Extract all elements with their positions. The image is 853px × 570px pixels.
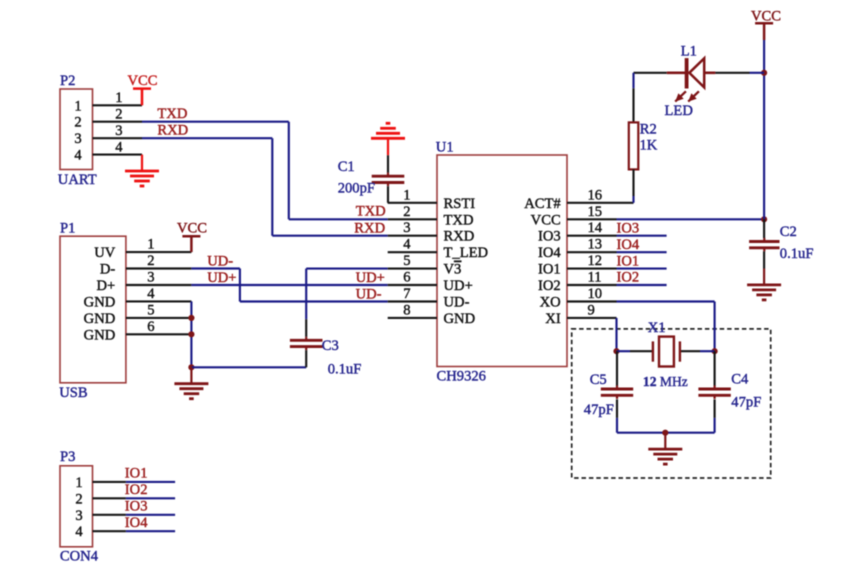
svg-text:2: 2: [74, 115, 81, 131]
svg-text:3: 3: [403, 220, 410, 236]
svg-text:4: 4: [74, 148, 82, 164]
svg-text:R2: R2: [640, 121, 657, 137]
svg-text:IO2: IO2: [538, 278, 561, 294]
svg-text:UART: UART: [58, 172, 97, 188]
svg-text:1: 1: [115, 90, 122, 106]
svg-text:6: 6: [403, 270, 410, 286]
svg-text:V3: V3: [444, 262, 462, 278]
svg-text:C2: C2: [780, 224, 797, 240]
svg-text:UV: UV: [94, 245, 116, 261]
svg-text:LED: LED: [665, 103, 693, 119]
svg-text:TXD: TXD: [157, 106, 187, 122]
svg-text:C1: C1: [338, 159, 355, 175]
svg-text:2: 2: [115, 107, 122, 123]
svg-text:GND: GND: [84, 327, 116, 343]
svg-text:P1: P1: [60, 220, 75, 236]
svg-text:IO4: IO4: [538, 245, 561, 261]
svg-text:CH9326: CH9326: [437, 369, 486, 385]
svg-text:0.1uF: 0.1uF: [780, 246, 814, 262]
svg-text:3: 3: [74, 131, 81, 147]
svg-text:X1: X1: [648, 320, 666, 336]
svg-text:XI: XI: [545, 311, 561, 327]
svg-text:12 MHz: 12 MHz: [643, 374, 688, 389]
svg-text:4: 4: [115, 139, 123, 155]
svg-text:13: 13: [588, 237, 603, 253]
svg-text:11: 11: [588, 270, 602, 286]
svg-text:IO2: IO2: [617, 270, 640, 286]
svg-text:3: 3: [75, 508, 82, 524]
svg-text:14: 14: [588, 220, 603, 236]
svg-text:47pF: 47pF: [584, 402, 614, 418]
svg-text:RXD: RXD: [354, 220, 385, 236]
svg-text:8: 8: [403, 302, 410, 318]
svg-text:UD-: UD-: [444, 295, 470, 311]
svg-text:2: 2: [147, 253, 154, 269]
svg-text:VCC: VCC: [531, 212, 561, 228]
svg-text:D+: D+: [97, 278, 116, 294]
svg-text:UD-: UD-: [207, 253, 233, 269]
svg-text:TXD: TXD: [444, 212, 474, 228]
svg-text:USB: USB: [59, 385, 88, 401]
svg-text:IO4: IO4: [617, 237, 640, 253]
svg-text:IO4: IO4: [125, 515, 148, 531]
svg-text:1: 1: [147, 237, 154, 253]
svg-text:VCC: VCC: [128, 73, 158, 89]
svg-text:T_LED: T_LED: [444, 245, 489, 261]
svg-text:5: 5: [147, 302, 154, 318]
svg-text:1: 1: [74, 98, 81, 114]
svg-text:UD+: UD+: [444, 278, 473, 294]
svg-text:XO: XO: [540, 295, 561, 311]
svg-text:D-: D-: [100, 262, 116, 278]
svg-text:IO1: IO1: [538, 262, 561, 278]
svg-text:UD+: UD+: [356, 270, 385, 286]
svg-text:RSTI: RSTI: [444, 196, 476, 212]
svg-text:GND: GND: [84, 311, 116, 327]
svg-text:IO3: IO3: [125, 499, 148, 515]
svg-text:1: 1: [403, 187, 410, 203]
svg-text:IO1: IO1: [125, 466, 148, 482]
svg-text:4: 4: [147, 286, 155, 302]
svg-text:47pF: 47pF: [731, 394, 761, 410]
svg-text:P2: P2: [60, 73, 75, 89]
svg-text:C5: C5: [590, 372, 607, 388]
svg-text:L1: L1: [681, 43, 697, 59]
svg-text:CON4: CON4: [60, 548, 99, 564]
svg-text:3: 3: [115, 123, 122, 139]
svg-text:7: 7: [403, 286, 410, 302]
svg-text:6: 6: [147, 319, 154, 335]
svg-text:12: 12: [588, 253, 603, 269]
svg-text:C4: C4: [731, 372, 749, 388]
svg-text:10: 10: [588, 286, 603, 302]
svg-text:1: 1: [75, 475, 82, 491]
svg-text:VCC: VCC: [751, 8, 781, 24]
svg-text:UD-: UD-: [356, 286, 382, 302]
svg-text:IO1: IO1: [617, 253, 640, 269]
svg-text:UD+: UD+: [207, 270, 236, 286]
svg-text:P3: P3: [60, 449, 75, 465]
svg-text:2: 2: [75, 491, 82, 507]
svg-text:GND: GND: [84, 294, 116, 310]
svg-text:U1: U1: [436, 139, 454, 155]
svg-text:RXD: RXD: [157, 123, 188, 139]
svg-text:GND: GND: [444, 311, 476, 327]
svg-text:16: 16: [588, 187, 603, 203]
svg-text:5: 5: [403, 253, 410, 269]
svg-text:C3: C3: [322, 338, 339, 354]
svg-text:4: 4: [403, 237, 411, 253]
svg-text:2: 2: [403, 204, 410, 220]
svg-text:IO3: IO3: [538, 229, 561, 245]
svg-text:ACT#: ACT#: [524, 196, 561, 212]
svg-text:3: 3: [147, 270, 154, 286]
svg-text:IO2: IO2: [125, 482, 148, 498]
svg-text:9: 9: [588, 302, 595, 318]
svg-text:200pF: 200pF: [338, 181, 375, 197]
svg-text:TXD: TXD: [356, 204, 386, 220]
svg-text:1K: 1K: [640, 138, 658, 154]
svg-text:IO3: IO3: [617, 220, 640, 236]
svg-text:15: 15: [588, 204, 603, 220]
svg-text:0.1uF: 0.1uF: [328, 361, 362, 377]
svg-text:VCC: VCC: [177, 220, 207, 236]
svg-text:4: 4: [75, 524, 83, 540]
svg-text:RXD: RXD: [444, 229, 475, 245]
